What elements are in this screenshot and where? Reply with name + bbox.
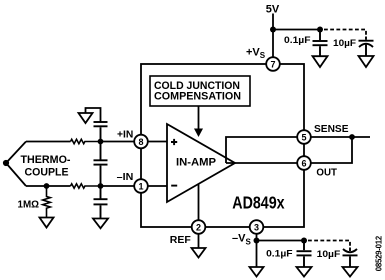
- wire dashed to C7 10uF: [308, 241, 350, 248]
- svg-text:+IN: +IN: [117, 130, 133, 141]
- svg-text:3: 3: [254, 222, 259, 232]
- cold junction compensation block: [150, 76, 250, 106]
- capacitor C1 0.1uF (+Vs decoupling): [313, 30, 328, 57]
- wire dashed to C2 10uF: [324, 30, 366, 37]
- op-amp plus input sign: [171, 139, 177, 145]
- svg-text:10µF: 10µF: [333, 38, 356, 49]
- wire REF pin to ground: [198, 227, 200, 248]
- wire pin 3 to -Vs rail: [256, 227, 258, 241]
- wire -IN node to op-amp: [101, 185, 168, 187]
- svg-text:5: 5: [301, 132, 306, 142]
- svg-text:2: 2: [196, 222, 201, 232]
- ground below -Vs: [250, 267, 264, 277]
- wire +IN lead: [26, 141, 71, 143]
- svg-text:COMPENSATION: COMPENSATION: [154, 91, 241, 103]
- junction dot +Vs rail at C1: [317, 27, 323, 33]
- ground below C5: [93, 219, 108, 229]
- svg-text:REF: REF: [170, 234, 192, 246]
- resistor R3 1Mohm: [43, 186, 51, 218]
- junction dot -IN at R3: [44, 183, 50, 189]
- ground below REF: [192, 248, 206, 258]
- svg-text:1MΩ: 1MΩ: [18, 198, 40, 210]
- junction dot -IN node: [98, 183, 104, 189]
- wire REF from op-amp to pin 2: [198, 185, 200, 228]
- ground above C3: [79, 113, 93, 123]
- svg-text:–VS: –VS: [232, 233, 251, 247]
- svg-text:AD849x: AD849x: [232, 193, 285, 213]
- op-amp U1 in-amp triangle: [167, 124, 235, 202]
- AD849x box outline: [141, 64, 304, 227]
- ground below C1: [313, 56, 328, 67]
- wire OUT to sense tie: [304, 137, 352, 163]
- wire op-amp output to pin 6: [226, 162, 304, 164]
- pin 1 -IN: [134, 179, 148, 193]
- svg-text:10µF: 10µF: [317, 249, 341, 260]
- capacitor C4 (differential): [94, 142, 108, 187]
- wire sense feedback from pin 5: [226, 137, 304, 163]
- pin 5 SENSE: [297, 130, 311, 144]
- junction dot 5V rail left: [270, 27, 276, 33]
- svg-text:COUPLE: COUPLE: [25, 166, 70, 178]
- ground below C6: [297, 267, 312, 277]
- wire 5V supply vertical: [272, 14, 274, 65]
- junction dot -Vs rail left: [254, 238, 260, 244]
- capacitor C3 (+IN to ground): [94, 122, 108, 142]
- junction dot +IN node: [98, 139, 104, 145]
- pin 8 +IN: [134, 135, 148, 149]
- svg-text:–IN: –IN: [117, 172, 134, 183]
- svg-text:IN-AMP: IN-AMP: [176, 157, 216, 169]
- svg-text:0.1µF: 0.1µF: [266, 248, 293, 259]
- svg-text:1: 1: [138, 181, 143, 191]
- capacitor C5 (-IN to ground): [94, 186, 108, 219]
- wire -IN lead: [26, 185, 71, 187]
- wire +IN node to op-amp: [101, 141, 168, 143]
- wire SENSE out: [304, 136, 370, 138]
- svg-text:SENSE: SENSE: [314, 123, 349, 135]
- wire ground to C3: [86, 108, 101, 122]
- svg-text:+VS: +VS: [246, 46, 266, 60]
- wire -Vs rail horizontal: [257, 240, 305, 242]
- svg-text:08529-012: 08529-012: [375, 235, 384, 271]
- resistor R2 (-IN series): [71, 184, 101, 188]
- pin 7 +Vs: [266, 57, 280, 71]
- svg-text:7: 7: [270, 59, 275, 69]
- wire +Vs rail horizontal: [273, 29, 320, 31]
- pin 2 REF: [192, 220, 206, 234]
- capacitor C6 0.1uF (-Vs decoupling): [297, 241, 312, 268]
- pin 3 -Vs: [250, 220, 264, 234]
- thermocouple leads: [6, 142, 26, 187]
- wire -Vs to ground: [256, 241, 258, 268]
- junction dot -Vs rail at C6: [301, 238, 307, 244]
- resistor R1 (+IN series): [71, 139, 101, 143]
- svg-text:0.1µF: 0.1µF: [284, 35, 311, 46]
- ground below C2: [359, 56, 374, 67]
- svg-text:THERMO-: THERMO-: [21, 154, 71, 166]
- pin 6 OUT: [297, 156, 311, 170]
- svg-text:OUT: OUT: [316, 167, 337, 179]
- capacitor C7 10uF polarized (-Vs decoupling): [343, 248, 358, 268]
- svg-text:8: 8: [138, 137, 143, 147]
- op-amp minus input sign: [171, 185, 177, 187]
- arrow from compensation block to op-amp: [198, 106, 200, 129]
- thermocouple junction dot: [3, 160, 9, 166]
- ground below R3: [40, 218, 54, 228]
- capacitor C2 10uF polarized (+Vs decoupling): [359, 37, 374, 57]
- junction dot sense/out tie: [349, 134, 355, 140]
- ground below C7: [343, 267, 358, 277]
- svg-text:6: 6: [301, 158, 306, 168]
